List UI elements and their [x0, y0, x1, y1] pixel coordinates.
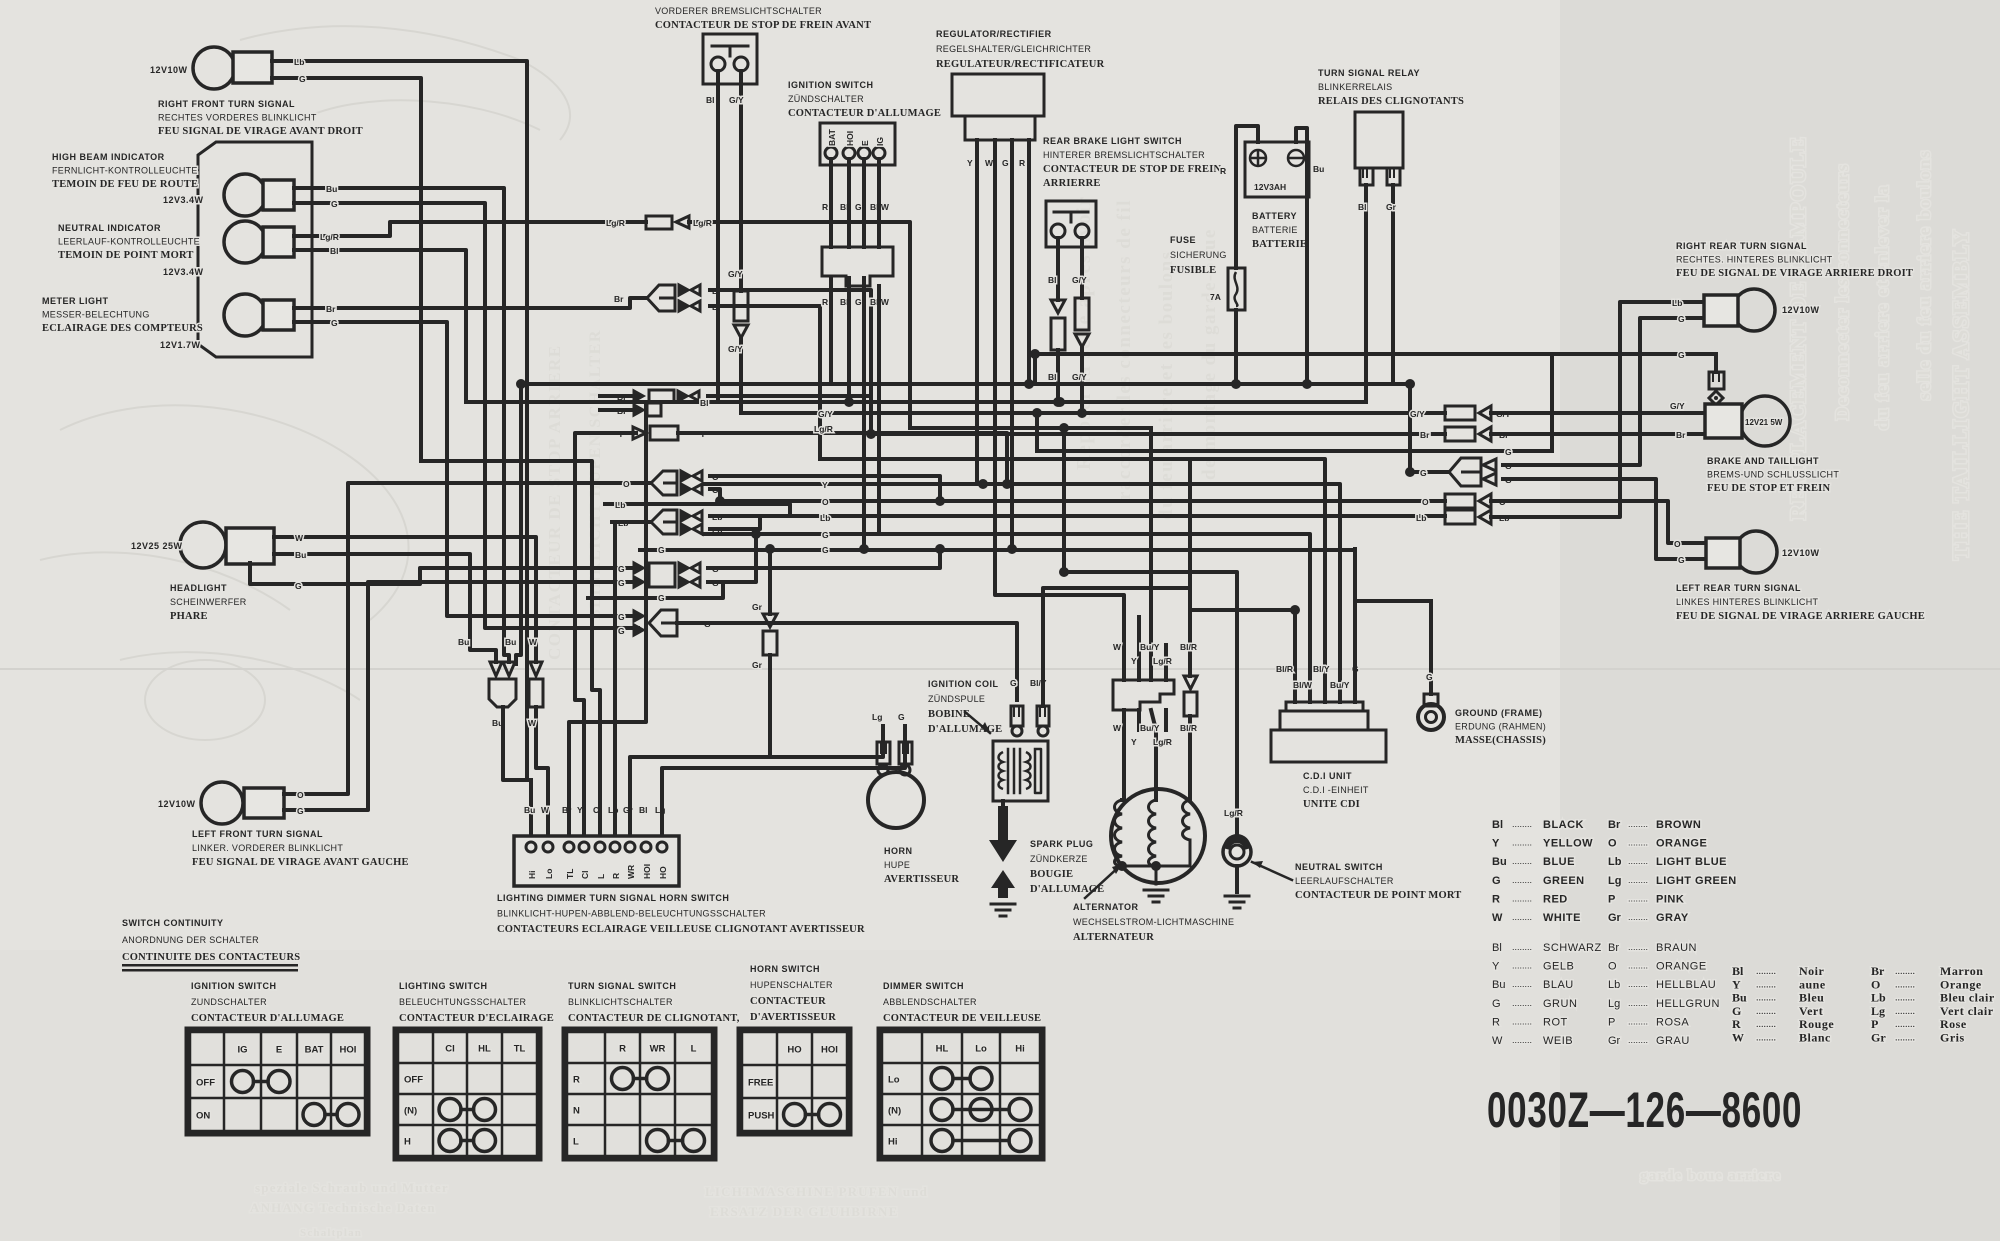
svg-text:Bu: Bu — [1732, 991, 1747, 1005]
svg-text:SPARK PLUG: SPARK PLUG — [1030, 839, 1093, 849]
label Bl rb — [1048, 275, 1057, 285]
label Br out2 — [712, 302, 722, 312]
node alt coil1 foot — [1117, 861, 1127, 871]
svg-text:G: G — [1492, 875, 1501, 887]
svg-text:aune: aune — [1799, 977, 1826, 991]
svg-text:REGELSHALTER/GLEICHRICHTER: REGELSHALTER/GLEICHRICHTER — [936, 44, 1091, 54]
wire spark plug lead — [1001, 801, 1005, 806]
table ignition switch — [187, 1029, 368, 1134]
label G horn — [898, 712, 905, 722]
wire riser L — [421, 461, 600, 835]
label Bl ign upper — [840, 202, 849, 212]
label G y451 — [1505, 447, 1512, 457]
svg-text:Br: Br — [1871, 964, 1885, 978]
wire Lb out2 — [710, 517, 760, 529]
ground frame ring — [1418, 694, 1444, 730]
svg-text:SCHWARZ: SCHWARZ — [1543, 942, 1602, 954]
wire CDI G pin — [1353, 549, 1357, 702]
svg-text:G: G — [898, 712, 905, 722]
svg-text:G: G — [618, 578, 625, 588]
svg-text:CONTACTEUR D'ALLUMAGE: CONTACTEUR D'ALLUMAGE — [191, 1013, 344, 1024]
svg-text:Noir: Noir — [1799, 964, 1825, 978]
ignition coil U1 — [993, 741, 1048, 801]
svg-text:ERSATZ DER GLUHBIRNE: ERSATZ DER GLUHBIRNE — [710, 1204, 898, 1219]
wire Y regulator — [975, 140, 979, 484]
svg-text:FEU DE SIGNAL DE VIRAGE ARRIER: FEU DE SIGNAL DE VIRAGE ARRIERE DROIT — [1676, 268, 1913, 279]
connector Lg/R inline — [646, 216, 689, 229]
svg-text:Bl: Bl — [700, 398, 709, 408]
svg-text:MESSER-BELECHTUNG: MESSER-BELECHTUNG — [42, 310, 150, 320]
label Lb out2 — [712, 525, 722, 535]
svg-text:P: P — [1871, 1017, 1878, 1031]
pin R — [611, 873, 621, 879]
label left front turn signal title — [192, 829, 409, 868]
svg-text:GREEN: GREEN — [1543, 875, 1585, 887]
svg-text:Lg/R: Lg/R — [693, 218, 712, 228]
svg-text:Lo: Lo — [888, 1075, 900, 1086]
svg-text:Bl: Bl — [330, 246, 339, 256]
svg-text:BLINKLICHT HUPEN SCHALTER: BLINKLICHT HUPEN SCHALTER — [587, 329, 604, 620]
label Lb conn l — [1416, 513, 1426, 523]
wire G/Y rear brake — [1080, 238, 1084, 298]
svg-text:CONTACTEUR DE POINT MORT: CONTACTEUR DE POINT MORT — [1295, 890, 1462, 901]
wire riser TL — [569, 402, 646, 835]
label Bl/R alt1 — [1180, 642, 1197, 652]
svg-text:G: G — [822, 530, 829, 540]
svg-text:........: ........ — [1628, 819, 1648, 829]
label Y in — [618, 429, 624, 439]
svg-text:BATTERIE: BATTERIE — [1252, 239, 1307, 250]
wire G fan out — [677, 623, 1017, 700]
connector taillight top — [1709, 372, 1724, 405]
svg-text:LINKES HINTERES BLINKLICHT: LINKES HINTERES BLINKLICHT — [1676, 597, 1819, 607]
label Bu/Y alt1 — [1140, 642, 1160, 652]
svg-text:THE TAILLIGHT ASSEMBLY: THE TAILLIGHT ASSEMBLY — [1948, 228, 1973, 560]
svg-text:CONTINUITE DES CONTACTEURS: CONTINUITE DES CONTACTEURS — [122, 952, 300, 963]
wire G ignition — [862, 159, 866, 247]
svg-text:BLINKLICHTSCHALTER: BLINKLICHTSCHALTER — [568, 997, 673, 1007]
svg-text:ARRIERRE: ARRIERRE — [1043, 178, 1101, 189]
svg-text:G/Y: G/Y — [818, 409, 833, 419]
wire bus Y y484 — [704, 484, 1340, 702]
label ignition switch title — [191, 981, 344, 1024]
svg-text:G/Y: G/Y — [729, 95, 744, 105]
svg-text:LEFT REAR TURN SIGNAL: LEFT REAR TURN SIGNAL — [1676, 583, 1801, 593]
svg-text:ROSA: ROSA — [1656, 1016, 1689, 1028]
connector G fan — [634, 610, 677, 636]
svg-text:G: G — [1010, 678, 1017, 688]
label part number 0030Z-126-8600 — [1487, 1083, 1802, 1139]
wire Bl relay — [1364, 185, 1368, 402]
connector G/Y rear brake inline — [1075, 298, 1089, 347]
svg-text:HL: HL — [478, 1044, 491, 1055]
CDI unit box — [1271, 702, 1386, 762]
svg-text:CONTACTEUR: CONTACTEUR — [750, 996, 826, 1007]
svg-text:........: ........ — [1895, 993, 1915, 1004]
svg-text:L: L — [596, 874, 606, 879]
svg-text:W: W — [295, 533, 304, 543]
svg-text:Bu: Bu — [1492, 979, 1505, 991]
label dimmer switch title — [883, 981, 1041, 1024]
label 12V3AH — [1254, 182, 1286, 192]
svg-text:Lg/R: Lg/R — [320, 232, 339, 242]
svg-text:........: ........ — [1628, 1035, 1648, 1045]
label G/Y rb — [1072, 275, 1087, 285]
wire bus O y501 — [720, 499, 1445, 503]
wire Bl front brake — [716, 71, 720, 402]
lamp left rear turn signal 12V10W — [1706, 531, 1777, 573]
label Bu below — [492, 718, 503, 728]
svg-text:NEUTRAL INDICATOR: NEUTRAL INDICATOR — [58, 223, 161, 233]
label Gr relay — [1386, 202, 1397, 212]
svg-text:C.D.I UNIT: C.D.I UNIT — [1303, 771, 1352, 781]
connector ignition switch — [820, 123, 895, 165]
svg-text:........: ........ — [1512, 998, 1532, 1008]
svg-text:BOUGIE: BOUGIE — [1030, 869, 1073, 880]
svg-text:IG: IG — [875, 137, 885, 146]
label front brake switch title — [655, 6, 871, 31]
label 12V10W lf — [158, 799, 196, 809]
svg-text:BATTERY: BATTERY — [1252, 211, 1297, 221]
switch rear brake light — [1046, 201, 1096, 247]
wire Bu/Y alternator up — [1149, 428, 1153, 680]
svg-text:Bl: Bl — [1048, 275, 1057, 285]
node junction 720-501 — [715, 496, 725, 506]
svg-text:........: ........ — [1756, 1033, 1776, 1044]
svg-text:Deconnecter les connecteurs: Deconnecter les connecteurs — [1832, 163, 1852, 420]
wire bus G y549 — [640, 548, 1355, 552]
label Y alt1 — [1131, 656, 1137, 666]
wire G high beam — [294, 203, 638, 628]
wire horn stub L — [881, 726, 885, 742]
svg-text:CI: CI — [445, 1044, 455, 1055]
svg-text:12V1.7W: 12V1.7W — [160, 340, 201, 350]
wire bus G/Y y413 — [741, 411, 1445, 415]
svg-text:........: ........ — [1512, 1035, 1532, 1045]
battery + terminal — [1250, 150, 1266, 166]
pin WR — [626, 865, 636, 879]
label G ground — [1426, 672, 1433, 682]
svg-text:Rose: Rose — [1940, 1017, 1967, 1031]
svg-text:Y: Y — [1131, 737, 1137, 747]
svg-text:Bl: Bl — [1492, 942, 1502, 954]
wire feeder G y451 — [1035, 413, 1039, 451]
svg-text:........: ........ — [1628, 961, 1648, 971]
svg-text:........: ........ — [1512, 856, 1532, 866]
wire Lg/R alternator — [1164, 710, 1168, 730]
label 12V10W lr — [1782, 548, 1820, 558]
svg-text:G/Y: G/Y — [1072, 275, 1087, 285]
svg-text:Hi: Hi — [1015, 1044, 1025, 1055]
label Lb rf — [294, 57, 304, 67]
svg-text:Bl/Y: Bl/Y — [1313, 664, 1330, 674]
svg-text:Gris: Gris — [1940, 1031, 1965, 1045]
svg-text:ABBLENDSCHALTER: ABBLENDSCHALTER — [883, 997, 977, 1007]
horn body — [868, 772, 924, 828]
label G bus2 — [822, 545, 829, 555]
svg-text:FREE: FREE — [748, 1078, 773, 1089]
svg-text:Y: Y — [1492, 961, 1500, 973]
svg-text:Br: Br — [1608, 819, 1621, 831]
wire ground frame horiz — [1355, 599, 1431, 603]
lamp high beam indicator lamp — [224, 174, 294, 216]
label G/Y rb2 — [1072, 372, 1087, 382]
svg-text:SCHEINWERFER: SCHEINWERFER — [170, 597, 247, 607]
wire Y out — [678, 433, 1007, 484]
node junction 1007-484 — [1002, 479, 1012, 489]
node junction 521-384 — [516, 379, 526, 389]
svg-text:FEU SIGNAL DE VIRAGE AVANT GAU: FEU SIGNAL DE VIRAGE AVANT GAUCHE — [192, 857, 409, 868]
svg-text:R: R — [619, 1044, 626, 1055]
label Br conn — [1499, 430, 1509, 440]
svg-text:........: ........ — [1628, 912, 1648, 922]
pin IG — [875, 137, 885, 146]
svg-text:Lo: Lo — [544, 869, 554, 879]
svg-text:Br: Br — [326, 304, 336, 314]
wire O out1 — [710, 476, 940, 501]
label G q in2 — [618, 578, 625, 588]
wire Br splitter out2 — [710, 306, 820, 459]
pin TL — [565, 869, 575, 879]
svg-text:G: G — [297, 806, 304, 816]
wire Bl pair stub2 — [600, 408, 634, 412]
label G lf — [297, 806, 304, 816]
svg-text:LICHTMASCHINE PRUFEN und: LICHTMASCHINE PRUFEN und — [705, 1184, 928, 1199]
svg-text:UNITE CDI: UNITE CDI — [1303, 799, 1360, 810]
label Bl pair in1 — [617, 392, 626, 402]
svg-text:FUSIBLE: FUSIBLE — [1170, 265, 1216, 276]
label W hl — [295, 533, 304, 543]
label Bl/W ign upper — [870, 202, 890, 212]
svg-text:ORANGE: ORANGE — [1656, 961, 1707, 973]
label Lb bus — [820, 513, 830, 523]
svg-text:TURN SIGNAL SWITCH: TURN SIGNAL SWITCH — [568, 981, 676, 991]
pin Lo — [544, 869, 554, 879]
svg-text:O: O — [1608, 961, 1617, 973]
table horn switch — [739, 1029, 850, 1134]
svg-text:12V10W: 12V10W — [1782, 305, 1820, 315]
svg-text:O: O — [822, 497, 829, 507]
svg-text:12V10W: 12V10W — [1782, 548, 1820, 558]
svg-text:BOBINE: BOBINE — [928, 709, 970, 720]
wire G q out1 — [708, 549, 940, 568]
svg-text:Bu: Bu — [1313, 164, 1324, 174]
battery box — [1245, 142, 1309, 197]
svg-text:HORN: HORN — [884, 846, 913, 856]
svg-text:P: P — [1608, 1016, 1615, 1028]
svg-text:12V3AH: 12V3AH — [1254, 182, 1286, 192]
svg-text:Rouge: Rouge — [1799, 1017, 1834, 1031]
svg-text:HEADLIGHT: HEADLIGHT — [170, 583, 227, 593]
label Lg/R ni — [320, 232, 339, 242]
svg-text:LEERLAUF-KONTROLLEUCHTE: LEERLAUF-KONTROLLEUCHTE — [58, 237, 200, 247]
node alt coil2 foot — [1151, 861, 1161, 871]
svg-text:Lg/R: Lg/R — [1153, 737, 1172, 747]
label G rf — [299, 74, 306, 84]
connector Bl/R inline — [1184, 676, 1197, 716]
svg-text:Lg/R: Lg/R — [1153, 656, 1172, 666]
svg-text:........: ........ — [1628, 856, 1648, 866]
svg-text:TEMOIN DE POINT MORT: TEMOIN DE POINT MORT — [58, 250, 194, 261]
label 12V25 25W — [131, 541, 183, 551]
svg-text:Schaltplan: Schaltplan — [300, 1227, 362, 1239]
svg-text:W: W — [1113, 723, 1122, 733]
wire G/Y front brake upper — [739, 71, 743, 291]
label 12V10W right front — [150, 65, 188, 75]
pin BAT — [827, 128, 837, 146]
svg-text:TL: TL — [514, 1044, 526, 1055]
decorative sketch lines — [40, 26, 570, 740]
label W alt2 — [1113, 723, 1122, 733]
label turn signal relay title — [1318, 68, 1464, 107]
svg-text:du feu arriere et enlever la: du feu arriere et enlever la — [1872, 184, 1892, 430]
svg-text:WR: WR — [650, 1044, 666, 1055]
svg-text:HUPENSCHALTER: HUPENSCHALTER — [750, 980, 833, 990]
label Lb conn — [1499, 513, 1509, 523]
svg-text:BRAKE AND TAILLIGHT: BRAKE AND TAILLIGHT — [1707, 456, 1819, 466]
svg-text:Lb: Lb — [1871, 991, 1886, 1005]
label G q out1 — [712, 564, 719, 574]
node junction 1307-384 — [1302, 379, 1312, 389]
label O lr — [1674, 539, 1681, 549]
label 12V3.4W hb — [163, 195, 204, 205]
svg-text:D'AVERTISSEUR: D'AVERTISSEUR — [750, 1012, 836, 1023]
svg-text:W: W — [528, 718, 537, 728]
lamp neutral indicator lamp — [224, 221, 294, 263]
label Bl/W cdi — [1293, 680, 1313, 690]
svg-text:R: R — [822, 202, 828, 212]
svg-text:L: L — [691, 1044, 697, 1055]
wire bus G y451 — [1037, 449, 1552, 453]
label left rear turn title — [1676, 583, 1925, 622]
node junction 1029-384 — [1024, 379, 1034, 389]
lamp right rear turn signal 12V10W — [1704, 289, 1775, 331]
svg-text:W: W — [529, 637, 538, 647]
svg-text:IGNITION SWITCH: IGNITION SWITCH — [191, 981, 277, 991]
svg-text:Bu/Y: Bu/Y — [1140, 723, 1160, 733]
svg-text:........: ........ — [1512, 942, 1532, 952]
svg-text:........: ........ — [1628, 998, 1648, 1008]
svg-text:ECLAIRAGE DES COMPTEURS: ECLAIRAGE DES COMPTEURS — [42, 323, 203, 334]
node junction 1064-428 — [1059, 423, 1069, 433]
label horn switch title — [750, 964, 836, 1023]
lamp meter light lamp — [224, 294, 294, 336]
wire neutral switch down — [1235, 866, 1239, 892]
label horn title — [884, 846, 959, 885]
svg-text:Gr: Gr — [752, 602, 763, 612]
svg-text:DIMMER SWITCH: DIMMER SWITCH — [883, 981, 964, 991]
wire Gr lower — [768, 655, 772, 757]
label ignition coil title — [928, 679, 1002, 735]
svg-text:Bl/R: Bl/R — [1180, 642, 1197, 652]
svg-text:........: ........ — [1756, 1006, 1776, 1017]
label battery title — [1252, 211, 1307, 250]
svg-text:R: R — [1492, 893, 1500, 905]
svg-text:HOI: HOI — [845, 131, 855, 146]
svg-text:12V25 25W: 12V25 25W — [131, 541, 183, 551]
label Bl ni — [330, 246, 339, 256]
label Y bus — [822, 480, 828, 490]
wire Lb upper line — [605, 504, 790, 516]
wire bus R y384 — [521, 382, 1410, 386]
wire G/Y to brake lamp — [1491, 411, 1705, 415]
ground neutral switch — [1225, 896, 1249, 908]
node junction 1082-413 — [1077, 408, 1087, 418]
svg-text:BLINKLICHT-HUPEN-ABBLEND-BELEU: BLINKLICHT-HUPEN-ABBLEND-BELEUCHTUNGSSCH… — [497, 909, 766, 919]
svg-text:Gr: Gr — [1871, 1031, 1886, 1045]
svg-text:VORDERER BREMSLICHTSCHALTER: VORDERER BREMSLICHTSCHALTER — [655, 6, 822, 16]
wire G tail connector drop — [1714, 354, 1718, 372]
svg-text:HIGH BEAM INDICATOR: HIGH BEAM INDICATOR — [52, 152, 165, 162]
label ground frame title — [1455, 708, 1546, 746]
label lighting switch title — [399, 981, 554, 1024]
svg-text:Bu: Bu — [326, 184, 337, 194]
label G bus1 — [822, 530, 829, 540]
node junction 1058-402 — [1053, 397, 1063, 407]
svg-text:G: G — [822, 545, 829, 555]
wire O out2 — [710, 489, 720, 501]
svg-text:SICHERUNG: SICHERUNG — [1170, 250, 1227, 260]
svg-text:G: G — [1732, 1004, 1741, 1018]
label G f out — [704, 619, 711, 629]
svg-text:RIGHT REAR TURN SIGNAL: RIGHT REAR TURN SIGNAL — [1676, 241, 1807, 251]
svg-text:Gr: Gr — [752, 660, 763, 670]
svg-text:PHARE: PHARE — [170, 611, 208, 622]
svg-text:Hi: Hi — [527, 871, 537, 880]
svg-text:selle du feu arriere boulons: selle du feu arriere boulons — [1914, 149, 1934, 400]
wire Br to brake lamp — [1491, 432, 1705, 436]
svg-text:BAT: BAT — [827, 128, 837, 146]
wire Lb fan stub — [612, 520, 651, 524]
svg-text:LIGHT GREEN: LIGHT GREEN — [1656, 875, 1737, 887]
svg-text:WHITE: WHITE — [1543, 912, 1581, 924]
label G q in1 — [618, 564, 625, 574]
label neutral indicator title — [58, 223, 200, 261]
svg-text:R: R — [1492, 1016, 1500, 1028]
label Bl/Y cdi — [1313, 664, 1330, 674]
label right rear turn title — [1676, 241, 1913, 279]
svg-text:........: ........ — [1628, 875, 1648, 885]
wire horn stub R — [903, 726, 907, 742]
label Lb rr — [1672, 298, 1682, 308]
svg-text:PUSH: PUSH — [748, 1111, 775, 1122]
wire Bu/Y alternator — [1151, 710, 1156, 800]
wire bus Lg/R y428 — [910, 426, 1151, 430]
node junction 1060-402 — [1055, 397, 1065, 407]
label G/Y fb3 — [728, 344, 743, 354]
wire Gr relay — [1391, 185, 1395, 384]
svg-text:Bl: Bl — [639, 805, 648, 815]
wire R regulator — [1027, 140, 1031, 384]
node junction 1295-610 — [1290, 605, 1300, 615]
svg-text:FEU DE SIGNAL DE VIRAGE ARRIER: FEU DE SIGNAL DE VIRAGE ARRIERE GAUCHE — [1676, 611, 1925, 622]
svg-text:Lo: Lo — [975, 1044, 987, 1055]
svg-text:GROUND (FRAME): GROUND (FRAME) — [1455, 708, 1543, 718]
wire Bl pair stub1 — [600, 394, 634, 398]
svg-text:........: ........ — [1512, 979, 1532, 989]
node junction 983-484 — [978, 479, 988, 489]
label G q out2 — [712, 578, 719, 588]
label O lf — [297, 790, 304, 800]
svg-text:W: W — [1492, 1035, 1503, 1047]
svg-text:........: ........ — [1756, 993, 1776, 1004]
svg-text:12V3.4W: 12V3.4W — [163, 267, 204, 277]
wire Bl rear brake — [1056, 238, 1060, 300]
lamp brake and taillight 12V21/5W — [1705, 396, 1790, 446]
svg-text:O: O — [297, 790, 304, 800]
svg-text:Gr: Gr — [1386, 202, 1397, 212]
wire Bl ignition low — [847, 278, 851, 402]
